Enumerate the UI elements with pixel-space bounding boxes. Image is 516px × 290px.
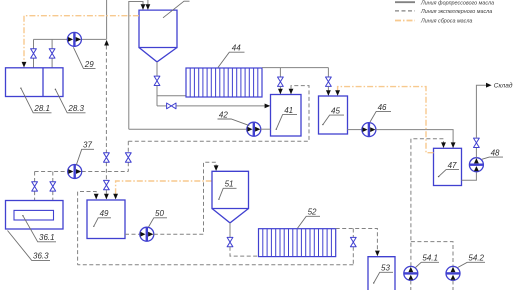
- label 44: [218, 44, 245, 68]
- label 36.1: [22, 215, 56, 242]
- pump 46: [362, 123, 376, 137]
- arrow to warehouse: [486, 83, 492, 88]
- valve above tank 45: [326, 77, 332, 86]
- dashed: tank 36 suction manifold: [35, 171, 129, 173]
- wire: hopper 51 outlet: [229, 223, 231, 238]
- dashed: pump 50 to hopper 51: [154, 162, 216, 234]
- label 49: [93, 209, 111, 227]
- label 53: [373, 264, 393, 284]
- hopper label leader (label cut off): [163, 1, 190, 18]
- legend line: forepress oil: [395, 0, 494, 6]
- label 54.1: [416, 254, 440, 268]
- svg-text:36.1: 36.1: [39, 233, 55, 242]
- arrow into tank 49 (middle): [104, 194, 109, 200]
- pump 37: [68, 165, 82, 179]
- svg-text:54.2: 54.2: [468, 254, 484, 263]
- valve on riser A (upper): [104, 153, 110, 162]
- arrow into tank 49 (right): [113, 194, 118, 200]
- tank 41: [271, 95, 302, 137]
- arrow into tank 41 top: [278, 89, 283, 95]
- svg-text:Линия экспеллерного масла: Линия экспеллерного масла: [420, 9, 492, 15]
- wire: tank 45 to pump 46: [348, 129, 362, 131]
- wire: pump 46 to tank 47: [376, 130, 453, 148]
- svg-text:37: 37: [83, 141, 92, 150]
- wire: bypass to tank 41: [176, 105, 269, 107]
- label 46: [370, 103, 391, 122]
- svg-text:54.1: 54.1: [422, 254, 438, 263]
- wire: forepress feed branch to hopper and pump 42: [129, 2, 143, 130]
- orange discharge line hopper to tank 28.1: [24, 16, 139, 62]
- hopper 51: [212, 171, 249, 223]
- label 50: [149, 209, 168, 227]
- wire: suction manifold of tank 28: [34, 38, 107, 40]
- heat exchanger 52: [259, 229, 336, 257]
- svg-text:41: 41: [284, 106, 293, 115]
- wire: to warehouse: [476, 85, 489, 138]
- legend line: oil discharge: [395, 19, 472, 25]
- wire: riser to press floor: [106, 0, 108, 39]
- wire: valve line 1 above tank 28: [33, 39, 35, 67]
- orange discharge line 51 to 49: [116, 181, 212, 194]
- wire: hopper outlet: [156, 62, 158, 76]
- valve on line to 41: [125, 153, 131, 162]
- arrow up at riser junction: [104, 40, 109, 46]
- arrow into tank 41 top (expeller): [289, 89, 294, 95]
- valve above tank 36 (right): [50, 182, 56, 191]
- dashed branch to pump 54.2: [411, 242, 453, 267]
- arrow into tank 53: [375, 251, 380, 257]
- svg-text:Склад: Склад: [494, 81, 513, 89]
- heat exchanger 44: [186, 68, 262, 97]
- wire: drop to valve of 41: [279, 68, 281, 77]
- arrow into tank 41 side: [265, 104, 271, 109]
- tank 53: [368, 257, 395, 290]
- svg-text:Линия сброса масла: Линия сброса масла: [420, 19, 472, 25]
- svg-text:29: 29: [84, 60, 94, 69]
- svg-text:53: 53: [381, 264, 390, 273]
- dashed line: pump 37 discharge to tank 41: [128, 86, 309, 172]
- svg-text:51: 51: [225, 180, 234, 189]
- valve below hopper 51: [227, 237, 233, 246]
- wire: heater 44 outlet manifold: [262, 67, 328, 69]
- tank 28 (compartments 28.1 / 28.3): [6, 68, 64, 97]
- legend line: expeller oil: [395, 9, 492, 15]
- hopper tank (top): [139, 10, 177, 62]
- pump 42: [247, 122, 261, 136]
- dashed riser: pumps 54 to tank 47: [411, 139, 444, 266]
- svg-text:Линия форпрессового масла: Линия форпрессового масла: [420, 0, 494, 6]
- wire: valve to tank 45: [327, 87, 329, 96]
- valve above tank 28 (right): [49, 49, 55, 58]
- dashed suction of pump 54.2: [452, 281, 454, 290]
- dashed: recirculation branch valve: [352, 229, 354, 265]
- valve on recirculation branch: [350, 237, 356, 246]
- arrow into tank 47 (expeller): [441, 142, 446, 148]
- valve: heater bypass: [167, 103, 176, 109]
- label 41: [276, 106, 298, 130]
- label 45: [322, 107, 344, 126]
- dashed: tank 49 to pump 50: [125, 233, 140, 235]
- pump 50: [140, 227, 154, 241]
- tank 45: [319, 96, 348, 134]
- dashed: valve line above 36 (left): [34, 172, 36, 211]
- dashed: valve line above 36 (right): [52, 172, 54, 211]
- pump 54.2: [446, 266, 460, 280]
- label 51: [218, 180, 236, 200]
- label 52: [297, 208, 320, 229]
- pump 54.1: [404, 266, 418, 280]
- label 54.2: [458, 254, 485, 268]
- pump 29: [67, 32, 81, 46]
- svg-text:46: 46: [378, 103, 387, 112]
- arrow into hopper (right): [146, 4, 151, 10]
- svg-text:48: 48: [491, 148, 500, 157]
- valve above tank 41: [278, 77, 284, 86]
- dashed: valve 51 to exchanger 52: [230, 247, 258, 256]
- svg-text:28.3: 28.3: [67, 104, 84, 113]
- wire: suction line to pump 42: [129, 128, 247, 130]
- arrow into tank 47 (from 46): [451, 142, 456, 148]
- wire: valve to tank 41: [279, 87, 281, 94]
- label 29: [73, 47, 95, 69]
- svg-text:52: 52: [308, 208, 317, 217]
- svg-text:50: 50: [155, 209, 164, 218]
- label 48: [482, 148, 503, 159]
- orange discharge line 47 to 45: [338, 87, 434, 153]
- svg-text:45: 45: [331, 107, 340, 116]
- arrow into tank 49 (left): [94, 194, 99, 200]
- wire: to heater 44 inlet: [157, 86, 186, 106]
- pump 48: [469, 158, 483, 172]
- label 28.3: [55, 89, 86, 114]
- svg-text:49: 49: [100, 209, 109, 218]
- svg-text:36.3: 36.3: [33, 252, 49, 261]
- wire: pump 48 discharge: [475, 148, 477, 158]
- arrow into hopper 51: [214, 165, 219, 171]
- wire: tank 47 outlet to pump 48: [462, 172, 477, 181]
- label 42: [218, 110, 250, 125]
- svg-text:28.1: 28.1: [33, 104, 50, 113]
- valve above tank 28 (left): [31, 49, 37, 58]
- svg-text:42: 42: [219, 110, 228, 119]
- arrow into tank 45 (discharge): [335, 90, 340, 96]
- wire: drop to valve of 45: [327, 68, 329, 77]
- label 36.3: [8, 231, 51, 261]
- arrow into tank 28.1: [22, 62, 27, 68]
- dashed recirculation feed to tank 49: [78, 192, 97, 265]
- valve above pump 48: [474, 138, 480, 147]
- arrow into hopper (left): [141, 4, 146, 10]
- wire: bypass left: [157, 105, 166, 107]
- svg-text:44: 44: [232, 44, 241, 53]
- dashed: exchanger 52 to tank 53: [336, 229, 378, 251]
- dashed suction of pump 54.1: [410, 281, 412, 290]
- valve below hopper: [154, 76, 160, 85]
- dashed recirculation bus: [78, 264, 354, 266]
- label 28.1: [20, 88, 51, 114]
- label 37: [76, 141, 94, 165]
- valve on riser A (lower): [104, 180, 110, 189]
- label 47: [438, 161, 459, 177]
- arrow into tank 45 top: [326, 90, 331, 96]
- tank 49: [87, 200, 125, 239]
- wire: press line into hopper: [147, 0, 149, 9]
- dashed expeller riser (line A): [105, 46, 107, 199]
- tank 36 (compartments 36.1 / 36.3): [6, 201, 64, 230]
- wire: valve line 2 above tank 28: [51, 39, 53, 67]
- svg-text:47: 47: [448, 161, 457, 170]
- tank 47: [434, 148, 462, 185]
- wire: pump 42 to tank 41: [261, 128, 271, 130]
- valve above tank 36 (left): [32, 182, 38, 191]
